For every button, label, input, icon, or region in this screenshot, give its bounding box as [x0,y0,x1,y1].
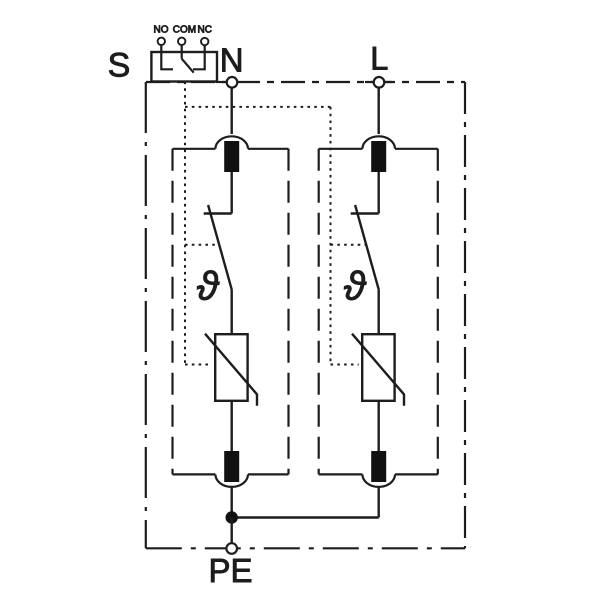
device outer boundary top edge (dash-dot) [146,81,465,83]
NO terminal circle [158,38,165,45]
left module lower plug-in contact (arch) [215,474,248,487]
wire from upper disconnect to thermal switch [230,172,232,214]
svg-text:N: N [220,42,244,79]
terminal L circle [374,77,385,88]
NC terminal circle [201,38,208,45]
top border solid stub right of L terminal [384,81,392,83]
left protection module box top edge [173,148,289,150]
wire from junction to PE terminal [230,518,232,544]
varistor MOV left diagonal stroke with bent tail [205,334,257,406]
mechanical linkage dotted branch to right thermal disconnector (horizontal) [185,106,331,108]
wire from terminal L down to right module plug contact [378,88,380,134]
left protection module box left edge (dashed) [171,149,173,475]
wire from left module to PE junction [230,488,232,518]
left thermal switch fixed contact seat [204,212,232,214]
device outer boundary right edge (dash-dot) [464,82,466,548]
device outer boundary left edge (dash-dot) [145,82,147,548]
wire from right switch to varistor [378,289,380,334]
svg-text:L: L [370,40,388,76]
PE terminal circle [226,543,237,554]
NO contact wire and seat [161,45,173,69]
COM wire [181,45,183,59]
top border solid stub between relay box and N terminal [216,81,228,83]
left protection module box bottom edge [173,473,289,475]
right branch lower disconnect device (filled rectangle) [371,451,386,482]
wire from right module down to PE bus [378,488,380,518]
svg-text:ϑ: ϑ [344,265,368,309]
left thermal disconnector dotted frame bottom edge [185,364,211,366]
right protection module box top edge [319,148,438,150]
terminal N circle [227,77,238,88]
svg-text:NO: NO [154,25,169,36]
right thermal disconnector dotted frame bottom edge [331,364,359,366]
wire from right varistor to lower disconnect [378,401,380,451]
wire from left switch to varistor [230,289,232,334]
COM changeover blade [182,59,194,73]
right branch upper disconnect device (filled rectangle) [371,141,386,172]
svg-text:COM: COM [173,25,196,36]
right thermal switch fixed contact seat [351,212,379,214]
right protection module box right edge (dashed) [437,149,439,475]
left branch lower disconnect device (filled rectangle) [224,451,239,482]
left protection module box right edge (dashed) [287,149,289,475]
mechanical linkage dotted line from remote contact down to left thermal disconnector [184,82,186,365]
right module upper plug-in contact (arch) [362,136,395,149]
svg-text:PE: PE [208,552,252,589]
varistor MOV right diagonal stroke with bent tail [352,334,404,406]
svg-text:ϑ: ϑ [197,265,221,309]
varistor MOV right branch (rectangle) [362,334,394,401]
PE bus wire joining both branches [232,516,379,518]
left thermal switch blade [208,205,232,289]
varistor MOV left branch (rectangle) [215,334,247,401]
right thermal disconnector dotted frame top edge [331,244,367,246]
left branch upper disconnect device (filled rectangle) [224,141,239,172]
wire from left varistor to lower disconnect [230,401,232,451]
right protection module box bottom edge [319,473,438,475]
right module lower plug-in contact (arch) [362,474,395,487]
junction node (filled dot) [226,511,238,523]
right thermal switch blade [355,205,379,289]
wire from upper disconnect to right thermal switch [378,172,380,214]
svg-text:S: S [108,47,131,85]
svg-text:NC: NC [197,25,211,36]
left thermal disconnector dotted frame top edge [185,244,219,246]
wire from terminal N down to left module plug contact [230,88,232,134]
COM terminal circle [178,38,185,45]
left module upper plug-in contact (arch) [215,136,248,149]
remote signalling contact box [151,52,217,82]
right protection module box left edge (dashed) [318,149,320,475]
top border solid stub left of L terminal [365,81,374,83]
NC contact wire and seat [193,45,205,69]
mechanical linkage dotted line down to right thermal disconnector [330,107,332,365]
device outer boundary bottom edge (dash-dot) [146,547,465,549]
